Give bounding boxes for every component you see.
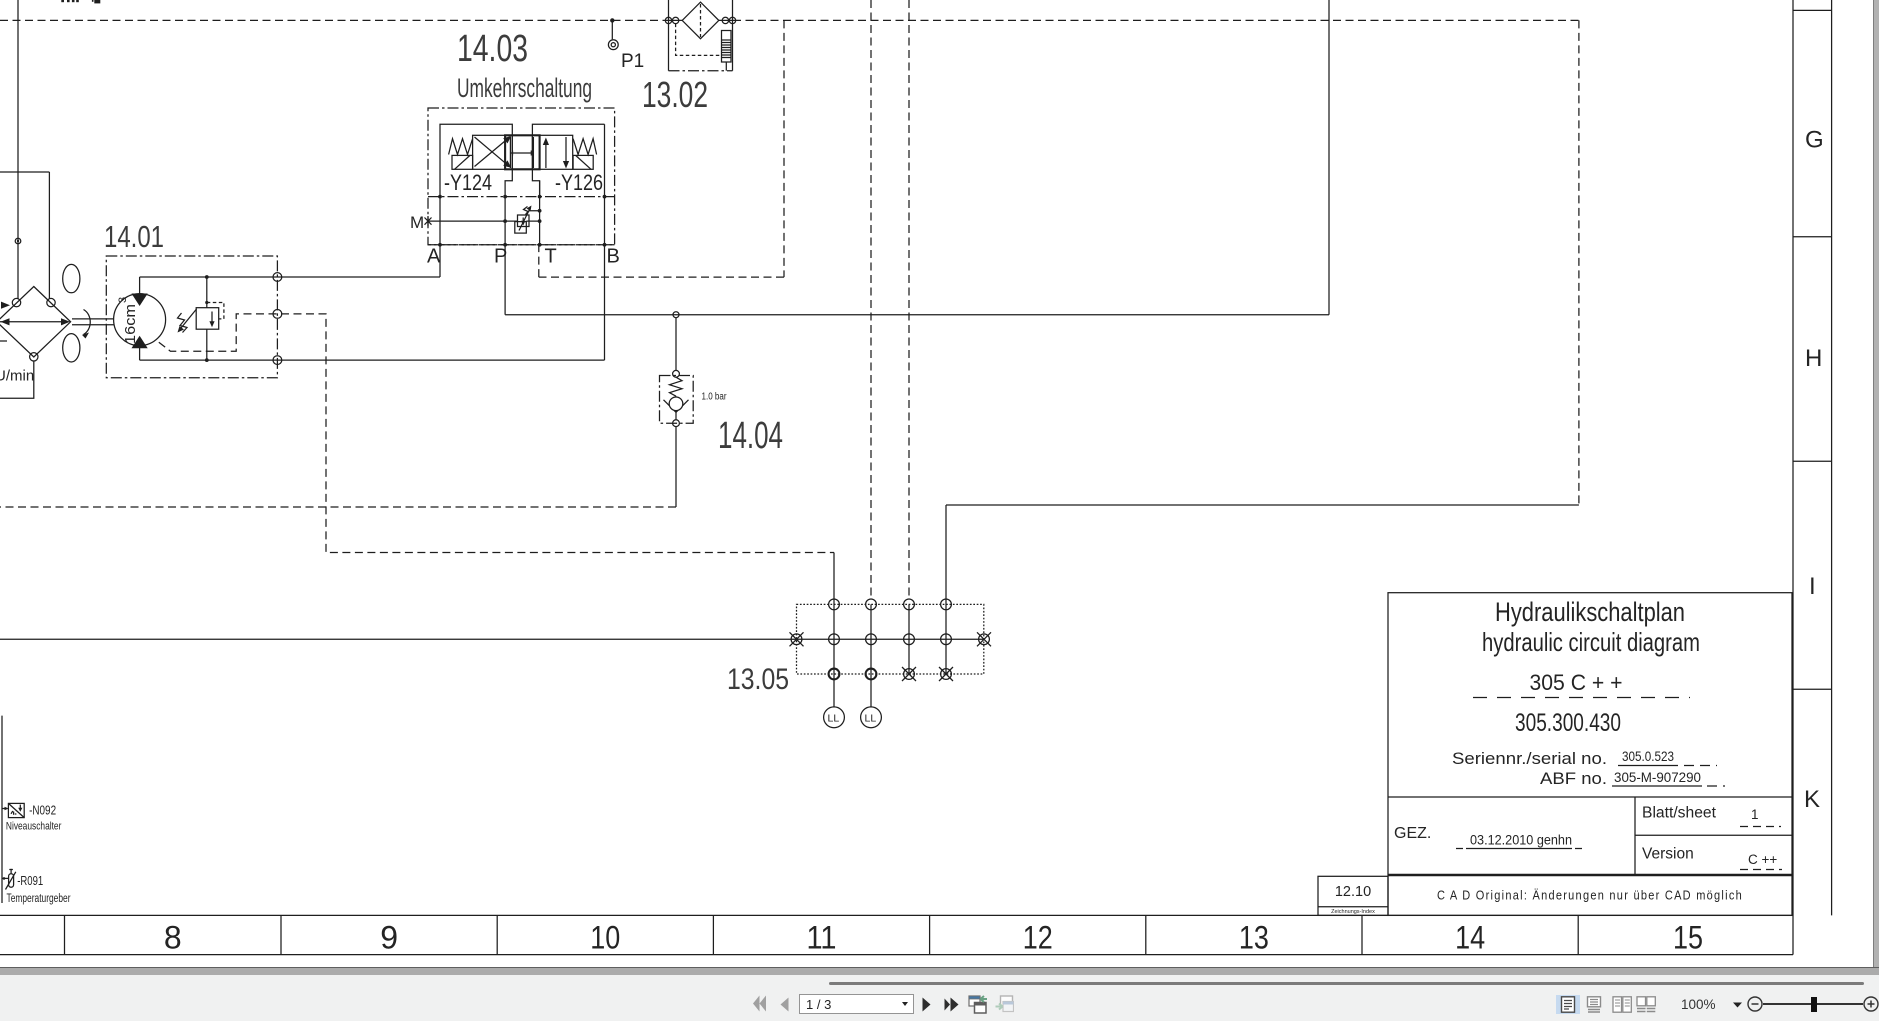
svg-text:16cm: 16cm: [122, 304, 139, 344]
svg-text:C A D Original: Änderungen nur: C A D Original: Änderungen nur über CAD …: [1437, 888, 1743, 903]
svg-text:Blatt/sheet: Blatt/sheet: [1642, 805, 1717, 822]
svg-text:-Y126: -Y126: [555, 170, 603, 195]
svg-text:H: H: [1805, 345, 1822, 372]
svg-text:1.0 bar: 1.0 bar: [702, 392, 728, 403]
svg-text:LL: LL: [828, 713, 840, 725]
svg-text:13.02: 13.02: [642, 74, 708, 115]
svg-text:Hydraulikschaltplan: Hydraulikschaltplan: [1495, 597, 1685, 627]
svg-text:-N092: -N092: [29, 803, 56, 818]
svg-text:Zeichnungs-Index: Zeichnungs-Index: [1331, 909, 1375, 915]
svg-text:U/min: U/min: [0, 368, 34, 385]
svg-text:GEZ.: GEZ.: [1394, 825, 1431, 842]
svg-text:T: T: [545, 246, 557, 268]
svg-text:305.300.430: 305.300.430: [1515, 709, 1621, 737]
svg-text:C ++: C ++: [1748, 852, 1777, 867]
svg-text:Umkehrschaltung: Umkehrschaltung: [457, 73, 592, 103]
svg-text:305 C + +: 305 C + +: [1530, 670, 1623, 695]
svg-text:11: 11: [807, 920, 837, 956]
svg-text:03.12.2010 genhn: 03.12.2010 genhn: [1470, 833, 1572, 848]
svg-text:305.0.523: 305.0.523: [1622, 749, 1674, 764]
svg-text:K: K: [1804, 786, 1820, 813]
svg-text:Temperaturgeber: Temperaturgeber: [7, 893, 71, 905]
svg-text:12.10: 12.10: [1335, 884, 1371, 900]
svg-text:-Y124: -Y124: [444, 170, 492, 195]
svg-text:I: I: [1809, 573, 1816, 600]
svg-text:14.03: 14.03: [457, 28, 528, 70]
svg-text:Version: Version: [1642, 846, 1694, 863]
svg-text:P1: P1: [621, 51, 644, 72]
svg-text:14.01: 14.01: [104, 219, 164, 254]
svg-text:3: 3: [117, 297, 129, 303]
svg-text:13.05: 13.05: [727, 663, 789, 696]
svg-text:14: 14: [1455, 920, 1485, 956]
svg-text:12: 12: [1023, 920, 1053, 956]
svg-text:305-M-907290: 305-M-907290: [1614, 770, 1701, 785]
svg-text:13: 13: [1239, 920, 1269, 956]
svg-text:Seriennr./serial no.: Seriennr./serial no.: [1452, 750, 1607, 768]
svg-text:8: 8: [164, 920, 182, 956]
svg-text:B: B: [607, 246, 620, 268]
svg-text:G: G: [1805, 127, 1824, 154]
svg-text:ABF no.: ABF no.: [1540, 770, 1607, 788]
svg-text:A: A: [427, 246, 441, 268]
svg-text:M: M: [410, 213, 424, 232]
svg-text:15: 15: [1673, 920, 1703, 956]
svg-text:Niveauschalter: Niveauschalter: [6, 821, 62, 833]
svg-text:9: 9: [380, 920, 398, 956]
svg-text:10: 10: [590, 920, 620, 956]
svg-text:LL: LL: [865, 713, 877, 725]
svg-text:1: 1: [1751, 807, 1759, 822]
svg-text:-R091: -R091: [17, 873, 43, 888]
svg-text:14.04: 14.04: [718, 415, 783, 457]
svg-text:hydraulic circuit diagram: hydraulic circuit diagram: [1482, 627, 1700, 657]
